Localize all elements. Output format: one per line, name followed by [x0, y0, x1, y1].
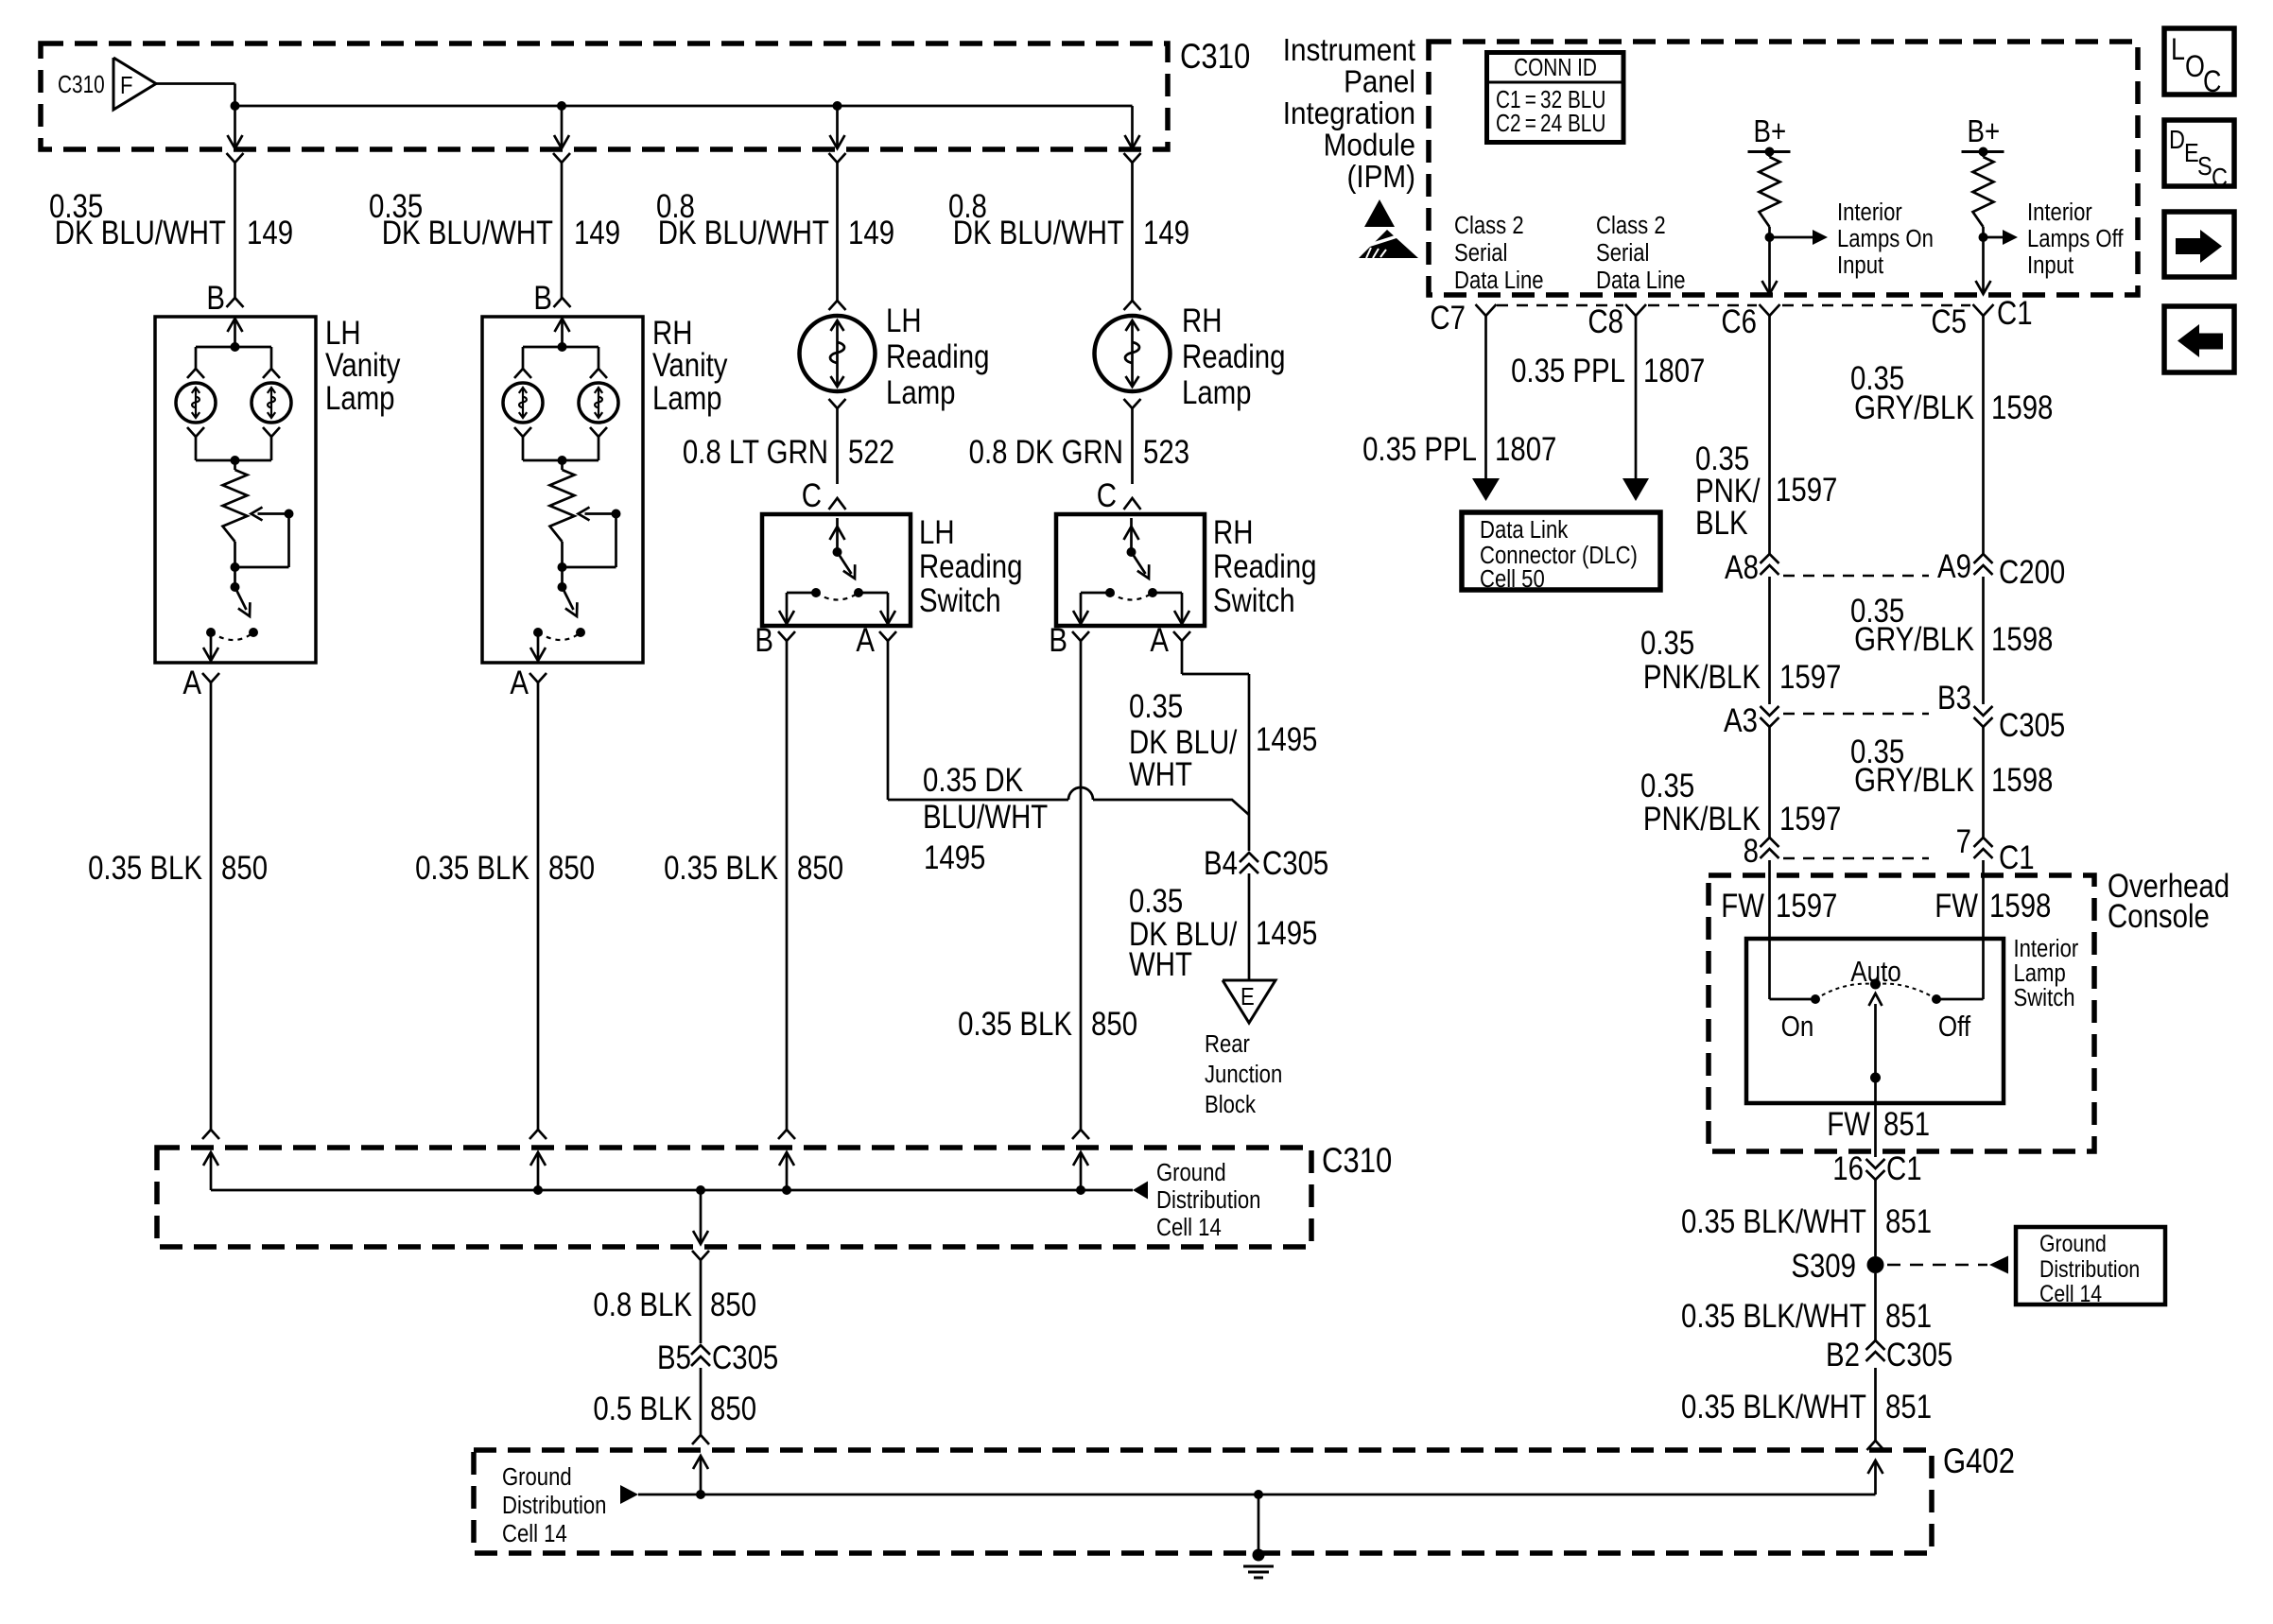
svg-text:E: E — [1241, 983, 1255, 1011]
svg-text:Distribution: Distribution — [1156, 1186, 1260, 1214]
svg-text:Integration: Integration — [1283, 96, 1415, 131]
svg-text:B+: B+ — [1968, 114, 2001, 149]
svg-text:Lamp: Lamp — [325, 380, 395, 417]
svg-text:1597: 1597 — [1779, 801, 1841, 838]
svg-text:0.35: 0.35 — [1640, 625, 1694, 662]
svg-text:LH: LH — [886, 302, 922, 339]
svg-text:Lamp: Lamp — [2014, 959, 2066, 987]
svg-text:C1: C1 — [1997, 295, 2033, 332]
svg-text:149: 149 — [574, 215, 620, 251]
svg-text:DK BLU/WHT: DK BLU/WHT — [382, 215, 553, 251]
svg-text:Instrument: Instrument — [1283, 33, 1415, 68]
svg-text:FW: FW — [1721, 888, 1764, 924]
svg-text:GRY/BLK: GRY/BLK — [1854, 389, 1974, 426]
svg-text:Serial: Serial — [1596, 239, 1649, 267]
svg-text:(IPM): (IPM) — [1346, 160, 1415, 195]
svg-text:1495: 1495 — [1256, 915, 1317, 952]
svg-text:Off: Off — [1938, 1011, 1970, 1044]
svg-text:B: B — [755, 622, 773, 659]
svg-text:Distribution: Distribution — [502, 1492, 606, 1519]
svg-text:0.35: 0.35 — [1129, 883, 1183, 920]
svg-text:C305: C305 — [712, 1339, 778, 1376]
svg-text:WHT: WHT — [1129, 946, 1192, 983]
svg-text:Lamp: Lamp — [652, 380, 722, 417]
svg-text:1597: 1597 — [1776, 472, 1837, 509]
svg-text:F: F — [120, 72, 132, 99]
svg-text:A: A — [510, 665, 529, 701]
svg-text:S309: S309 — [1791, 1248, 1856, 1285]
svg-text:Ground: Ground — [1156, 1159, 1226, 1186]
svg-text:Lamp: Lamp — [1182, 374, 1252, 411]
svg-text:1597: 1597 — [1779, 659, 1841, 696]
svg-text:C6: C6 — [1721, 303, 1757, 340]
svg-text:BLU/WHT: BLU/WHT — [923, 799, 1048, 836]
svg-text:B: B — [1049, 622, 1067, 659]
svg-text:B+: B+ — [1754, 114, 1787, 149]
svg-text:B5: B5 — [657, 1339, 691, 1376]
svg-text:523: 523 — [1143, 434, 1189, 471]
svg-text:Ground: Ground — [2039, 1230, 2107, 1256]
svg-text:Reading: Reading — [1213, 548, 1316, 585]
svg-text:Vanity: Vanity — [652, 347, 728, 384]
svg-text:Class 2: Class 2 — [1454, 212, 1524, 239]
svg-text:Switch: Switch — [919, 582, 1001, 619]
svg-text:Cell 14: Cell 14 — [2039, 1280, 2102, 1306]
svg-text:8: 8 — [1744, 833, 1759, 870]
svg-text:Lamp: Lamp — [886, 374, 956, 411]
svg-text:850: 850 — [548, 850, 595, 887]
svg-text:A: A — [1150, 622, 1169, 659]
svg-text:851: 851 — [1885, 1298, 1932, 1335]
svg-text:Distribution: Distribution — [2039, 1255, 2140, 1282]
svg-text:851: 851 — [1885, 1203, 1932, 1240]
svg-text:Switch: Switch — [2014, 984, 2075, 1011]
svg-text:0.8 DK GRN: 0.8 DK GRN — [969, 434, 1123, 471]
svg-text:0.8 LT GRN: 0.8 LT GRN — [683, 434, 828, 471]
svg-text:0.35 BLK: 0.35 BLK — [415, 850, 529, 887]
svg-text:850: 850 — [1091, 1006, 1137, 1043]
svg-text:16: 16 — [1832, 1150, 1864, 1187]
svg-text:851: 851 — [1885, 1389, 1932, 1425]
svg-text:C305: C305 — [1262, 845, 1328, 882]
svg-text:C8: C8 — [1588, 303, 1623, 340]
svg-text:C310: C310 — [1322, 1142, 1392, 1181]
svg-text:1598: 1598 — [1991, 621, 2053, 658]
svg-text:Input: Input — [2027, 251, 2073, 279]
svg-text:Class 2: Class 2 — [1596, 212, 1666, 239]
svg-text:D: D — [2169, 126, 2185, 154]
svg-text:0.35 PPL: 0.35 PPL — [1362, 431, 1477, 468]
svg-text:Lamps Off: Lamps Off — [2027, 225, 2124, 252]
svg-text:1807: 1807 — [1643, 353, 1705, 389]
svg-text:Cell 14: Cell 14 — [1156, 1214, 1222, 1241]
svg-text:C7: C7 — [1430, 300, 1466, 337]
svg-text:C: C — [1097, 477, 1117, 514]
svg-text:0.35 PPL: 0.35 PPL — [1511, 353, 1625, 389]
svg-text:RH: RH — [1182, 302, 1222, 339]
svg-text:FW: FW — [1935, 888, 1978, 924]
svg-text:Interior: Interior — [2014, 935, 2079, 962]
svg-text:1598: 1598 — [1991, 762, 2053, 799]
svg-text:PNK/BLK: PNK/BLK — [1643, 801, 1761, 838]
svg-text:B: B — [206, 280, 225, 317]
svg-text:1807: 1807 — [1495, 431, 1556, 468]
svg-text:Block: Block — [1205, 1091, 1257, 1118]
svg-text:Module: Module — [1324, 128, 1415, 163]
svg-text:Interior: Interior — [1837, 199, 1902, 226]
svg-text:A: A — [856, 622, 875, 659]
svg-text:GRY/BLK: GRY/BLK — [1854, 621, 1974, 658]
svg-text:Interior: Interior — [2027, 199, 2092, 226]
svg-text:C310: C310 — [1180, 38, 1250, 77]
svg-text:0.35 DK: 0.35 DK — [923, 762, 1024, 799]
svg-text:1597: 1597 — [1776, 888, 1837, 924]
svg-text:1495: 1495 — [1256, 721, 1317, 758]
svg-text:C2 = 24 BLU: C2 = 24 BLU — [1496, 110, 1605, 137]
svg-text:1495: 1495 — [924, 839, 985, 876]
svg-text:DK BLU/WHT: DK BLU/WHT — [953, 215, 1124, 251]
svg-text:C305: C305 — [1999, 707, 2065, 744]
svg-text:149: 149 — [247, 215, 293, 251]
svg-text:A9: A9 — [1937, 548, 1971, 585]
svg-text:850: 850 — [221, 850, 268, 887]
svg-text:Ground: Ground — [502, 1463, 572, 1491]
svg-text:B2: B2 — [1826, 1337, 1860, 1373]
svg-text:7: 7 — [1956, 823, 1971, 860]
svg-text:CONN ID: CONN ID — [1514, 54, 1597, 81]
svg-text:A3: A3 — [1724, 702, 1758, 739]
svg-text:C1: C1 — [1886, 1150, 1922, 1187]
svg-text:1598: 1598 — [1991, 389, 2053, 426]
svg-text:0.35 BLK: 0.35 BLK — [664, 850, 778, 887]
svg-text:B3: B3 — [1937, 680, 1971, 717]
svg-text:FW: FW — [1827, 1106, 1870, 1143]
svg-text:522: 522 — [848, 434, 894, 471]
svg-text:O: O — [2185, 50, 2205, 84]
svg-text:850: 850 — [797, 850, 843, 887]
svg-text:0.35 BLK/WHT: 0.35 BLK/WHT — [1681, 1298, 1866, 1335]
svg-text:Cell 50: Cell 50 — [1480, 565, 1545, 593]
svg-text:Lamps On: Lamps On — [1837, 225, 1934, 252]
svg-text:Rear: Rear — [1205, 1030, 1250, 1058]
svg-text:DK BLU/WHT: DK BLU/WHT — [55, 215, 226, 251]
svg-text:C: C — [802, 477, 822, 514]
svg-text:850: 850 — [710, 1287, 756, 1323]
svg-text:Input: Input — [1837, 251, 1883, 279]
svg-text:WHT: WHT — [1129, 756, 1192, 793]
svg-text:C305: C305 — [1886, 1337, 1952, 1373]
svg-text:0.35 BLK/WHT: 0.35 BLK/WHT — [1681, 1389, 1866, 1425]
svg-text:0.5 BLK: 0.5 BLK — [593, 1391, 692, 1427]
svg-text:DK BLU/WHT: DK BLU/WHT — [658, 215, 829, 251]
svg-text:149: 149 — [1143, 215, 1189, 251]
svg-text:Data Line: Data Line — [1454, 267, 1544, 294]
svg-text:C310: C310 — [58, 71, 105, 98]
svg-text:0.35: 0.35 — [1640, 768, 1694, 804]
svg-text:Serial: Serial — [1454, 239, 1507, 267]
svg-text:Vanity: Vanity — [325, 347, 401, 384]
svg-text:0.35 BLK: 0.35 BLK — [958, 1006, 1072, 1043]
svg-text:GRY/BLK: GRY/BLK — [1854, 762, 1974, 799]
svg-text:Switch: Switch — [1213, 582, 1295, 619]
svg-text:C: C — [2203, 65, 2221, 99]
svg-text:Data Link: Data Link — [1480, 516, 1569, 544]
svg-text:BLK: BLK — [1695, 505, 1748, 542]
svg-text:Junction: Junction — [1205, 1061, 1282, 1088]
svg-text:Reading: Reading — [886, 338, 989, 375]
svg-text:0.35: 0.35 — [1129, 688, 1183, 725]
svg-text:Panel: Panel — [1344, 64, 1415, 99]
svg-text:A: A — [182, 665, 201, 701]
svg-text:S: S — [2197, 152, 2212, 181]
svg-text:Data Line: Data Line — [1596, 267, 1686, 294]
svg-text:On: On — [1781, 1011, 1814, 1044]
svg-text:Console: Console — [2108, 898, 2210, 935]
svg-text:1598: 1598 — [1989, 888, 2051, 924]
svg-text:C1: C1 — [1999, 839, 2035, 876]
svg-text:B: B — [533, 280, 552, 317]
svg-text:C: C — [2212, 164, 2228, 192]
svg-text:RH: RH — [1213, 514, 1253, 551]
svg-text:LH: LH — [919, 514, 955, 551]
svg-text:Cell 14: Cell 14 — [502, 1520, 567, 1547]
svg-text:L: L — [2171, 33, 2185, 67]
svg-text:149: 149 — [848, 215, 894, 251]
svg-text:0.35 BLK: 0.35 BLK — [88, 850, 202, 887]
svg-text:851: 851 — [1883, 1106, 1930, 1143]
svg-text:PNK/BLK: PNK/BLK — [1643, 659, 1761, 696]
svg-text:C200: C200 — [1999, 554, 2065, 591]
svg-text:B4: B4 — [1204, 845, 1238, 882]
svg-text:0.35 BLK/WHT: 0.35 BLK/WHT — [1681, 1203, 1866, 1240]
svg-text:Reading: Reading — [919, 548, 1022, 585]
svg-text:C5: C5 — [1931, 303, 1967, 340]
svg-text:850: 850 — [710, 1391, 756, 1427]
svg-text:0.8 BLK: 0.8 BLK — [593, 1287, 692, 1323]
svg-text:G402: G402 — [1943, 1443, 2015, 1481]
svg-text:A8: A8 — [1725, 549, 1759, 586]
svg-text:Auto: Auto — [1850, 956, 1901, 989]
svg-text:Reading: Reading — [1182, 338, 1285, 375]
